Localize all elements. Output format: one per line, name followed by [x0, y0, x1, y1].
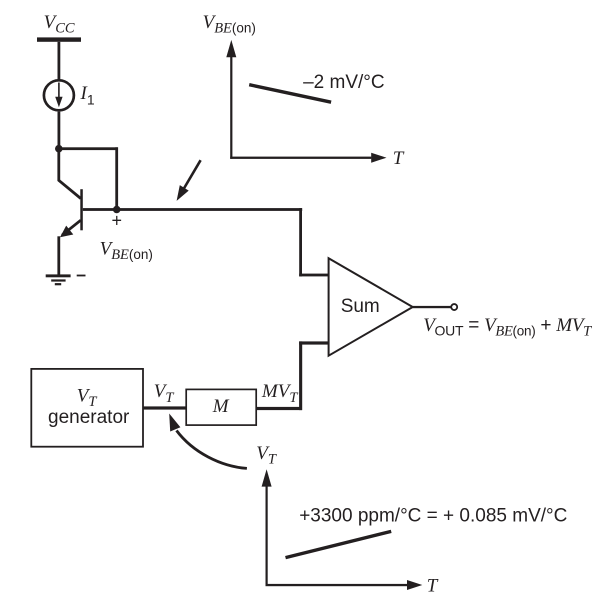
wire top input stub [299, 274, 329, 277]
svg-text:VBE(on): VBE(on) [100, 239, 153, 264]
wire generator to M [143, 406, 186, 409]
svg-text:VCC: VCC [44, 12, 75, 37]
block M box [186, 389, 256, 425]
svg-text:I1: I1 [80, 83, 95, 108]
node junction dot base [113, 206, 121, 214]
wire MVT horizontal [256, 407, 302, 410]
bottom graph slope line [286, 531, 392, 557]
transistor Q1 emitter arrowhead [60, 226, 73, 238]
wire bottom input stub [299, 341, 329, 344]
svg-text:VBE(on): VBE(on) [203, 12, 256, 37]
wire corner vertical down [299, 208, 302, 276]
output terminal circle [451, 304, 457, 310]
wire down to base node [115, 147, 118, 210]
top graph x-axis [230, 157, 371, 159]
svg-text:M: M [212, 396, 230, 417]
wire VCC to current source [58, 42, 61, 80]
svg-text:Sum: Sum [341, 296, 380, 317]
ground [46, 274, 71, 277]
wire bottom vertical [299, 341, 302, 410]
wire collector vertical [57, 149, 60, 181]
svg-text:+3300 ppm/°C = + 0.085 mV/°C: +3300 ppm/°C = + 0.085 mV/°C [299, 506, 567, 527]
top graph y-axis [230, 56, 232, 159]
pointer arrow to wire [183, 160, 201, 191]
wire emitter to ground [57, 236, 60, 275]
label minus [77, 275, 86, 277]
bottom graph x-axis [266, 584, 409, 586]
wire current source to node [58, 112, 61, 150]
transistor Q1 base bar [80, 189, 83, 230]
svg-text:VT: VT [256, 443, 277, 468]
svg-text:VOUT = VBE(on) + MVT: VOUT = VBE(on) + MVT [423, 315, 592, 340]
svg-text:T: T [427, 575, 439, 596]
svg-text:T: T [393, 148, 405, 169]
node junction dot top [55, 145, 63, 153]
svg-text:–2 mV/°C: –2 mV/°C [303, 72, 385, 93]
svg-text:MVT: MVT [261, 381, 298, 406]
current source arrow [58, 83, 60, 99]
curved arrow [177, 431, 247, 469]
transistor Q1 collector diagonal [59, 180, 81, 198]
wire output [413, 306, 452, 308]
wire node to right [59, 147, 118, 150]
svg-text:generator: generator [48, 407, 130, 428]
bottom graph y-axis [266, 485, 268, 586]
current source I1 circle [44, 80, 74, 110]
svg-text:+: + [112, 210, 123, 230]
top graph slope line [249, 85, 331, 103]
summer block Sum [329, 258, 413, 356]
block VT generator box [31, 369, 143, 447]
wire base to sum corner [83, 208, 302, 211]
power rail VCC bar [37, 37, 81, 41]
transistor Q1 emitter diagonal [62, 220, 81, 235]
svg-text:VT: VT [154, 381, 175, 406]
